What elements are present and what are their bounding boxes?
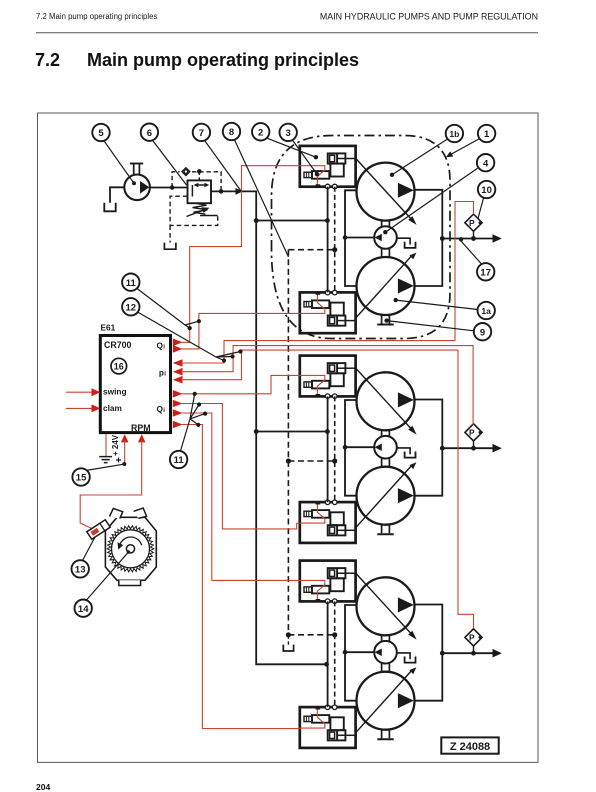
pilot control bus (dashed vertical) <box>287 250 289 635</box>
valve pilot stub (dashed) <box>198 171 200 180</box>
wire wG: to unit3 top regulator <box>181 404 301 529</box>
figure label Z 24088 box <box>441 737 498 753</box>
pressure reducing valve (6) body <box>188 180 212 203</box>
spring adjust arrow <box>187 210 204 216</box>
svg-text:204: 204 <box>36 782 50 792</box>
callout 11 <box>122 274 139 291</box>
svg-text:5: 5 <box>98 128 104 139</box>
callout leader 2 <box>266 138 316 157</box>
node: valve pilot tap <box>197 169 202 174</box>
pump unit 2 (mid pumps) <box>300 356 502 543</box>
callout 14 <box>75 600 92 617</box>
callout 10 <box>478 181 495 198</box>
node: pilot sense tap <box>219 189 224 194</box>
unit1 supply tie <box>256 220 326 222</box>
swing input wire <box>66 391 93 393</box>
svg-text:Z 24088: Z 24088 <box>450 741 490 753</box>
pilot pump flow triangle <box>140 181 149 194</box>
unit3 pilot tie (dashed) <box>288 634 334 636</box>
wire wE: pi to unit2 top regulator <box>181 350 474 628</box>
spring tail line <box>200 215 218 217</box>
engine flywheel gear <box>107 526 153 572</box>
callout 1 <box>478 125 495 142</box>
controller output arrowheads (into right edge) <box>173 339 183 429</box>
svg-text:4: 4 <box>483 158 489 169</box>
svg-text:2: 2 <box>258 128 263 139</box>
valve spring <box>193 203 208 214</box>
pilot pump (5) circle <box>124 175 150 201</box>
unit2 supply tie <box>256 431 326 433</box>
svg-text:1a: 1a <box>481 306 491 316</box>
callout 4 <box>477 154 494 171</box>
svg-text:12: 12 <box>126 303 137 314</box>
callout 9 <box>474 323 491 340</box>
valve internal path <box>191 185 193 197</box>
svg-text:CR700: CR700 <box>104 340 131 350</box>
svg-text:E61: E61 <box>101 323 116 333</box>
flow arrow on pilot line <box>236 188 244 195</box>
engine housing <box>105 517 156 580</box>
svg-text:Main pump operating principles: Main pump operating principles <box>87 50 359 70</box>
wire wD: pi to unit2 test point <box>181 346 473 425</box>
callout 6 <box>141 124 158 141</box>
dash-dot enclosure around unit 1 <box>272 136 451 339</box>
callout 8 <box>223 123 240 140</box>
clam input wire <box>66 407 93 409</box>
svg-text:7.2 Main pump operating princi: 7.2 Main pump operating principles <box>36 12 157 21</box>
valve drain tank <box>164 243 176 250</box>
RPM input wire arrow <box>138 434 146 442</box>
svg-text:16: 16 <box>114 362 124 372</box>
plus node <box>116 458 121 463</box>
svg-text:17: 17 <box>480 268 491 279</box>
callout leader 11b fork <box>181 394 206 451</box>
callout 16 <box>111 358 127 374</box>
callout 17 <box>477 263 494 280</box>
node: check valve tap <box>170 185 175 190</box>
svg-text:7: 7 <box>199 128 204 139</box>
svg-text:+ 24V: + 24V <box>111 434 120 456</box>
callout leader 12 fork <box>138 312 241 361</box>
callout leader 15 <box>86 464 124 470</box>
callout leader 1b <box>392 139 448 175</box>
pilot supply bus (vertical) <box>256 191 325 664</box>
svg-text:15: 15 <box>76 473 87 484</box>
engine lug right <box>134 508 147 518</box>
callout 1a <box>478 302 495 319</box>
callout 5 <box>92 124 109 141</box>
callout leader 13 <box>83 537 96 561</box>
svg-text:7.2: 7.2 <box>35 50 60 70</box>
wire wH: to unit3 bottom regulator <box>181 413 301 580</box>
callout 15 <box>72 468 89 485</box>
callout leader 7 <box>205 140 242 191</box>
pilot pump suction line <box>110 187 124 203</box>
svg-text:1: 1 <box>484 129 490 140</box>
callout leader 5 <box>104 141 134 184</box>
svg-text:3: 3 <box>286 128 291 139</box>
pilot bus tank <box>283 645 293 651</box>
check valve (dashed bypass) <box>172 172 221 192</box>
wire wA: Qi to unit1 top regulator <box>181 166 301 343</box>
rotation arrow <box>120 537 142 545</box>
callout 7 <box>193 124 210 141</box>
svg-text:1b: 1b <box>449 129 459 139</box>
pilot bus drain stub <box>287 635 289 645</box>
wire wI: to unit3 bottom solenoid drain <box>181 425 301 729</box>
unit2 pilot tie (dashed) <box>288 460 334 462</box>
svg-text:9: 9 <box>480 327 485 338</box>
RPM sensor wire <box>80 440 142 530</box>
callout leader 3 <box>292 140 317 175</box>
speed sensor (13) <box>87 520 110 540</box>
callout 12 <box>122 298 139 315</box>
pilot delivery line (pump to valve) <box>150 187 188 189</box>
svg-text:10: 10 <box>481 185 492 196</box>
callout leader 9 <box>387 321 474 331</box>
svg-text:MAIN HYDRAULIC PUMPS AND PUMP: MAIN HYDRAULIC PUMPS AND PUMP REGULATION <box>320 12 538 22</box>
svg-text:swing: swing <box>103 387 127 397</box>
callout 3 <box>280 124 297 141</box>
callout leader 10 <box>478 198 484 219</box>
svg-text:RPM: RPM <box>131 423 151 433</box>
svg-text:p: p <box>159 368 164 378</box>
header rule <box>36 32 538 34</box>
node: leader 5 target <box>132 181 136 185</box>
unit3 supply tie node <box>324 662 329 667</box>
svg-text:11: 11 <box>126 278 137 289</box>
valve drain lines (dashed) <box>170 196 218 225</box>
svg-text:13: 13 <box>75 565 86 576</box>
battery 24V wire <box>105 434 107 457</box>
callout leader 4 <box>385 168 477 232</box>
pilot delivery line (valve out) <box>211 190 257 192</box>
callout leader 6 <box>153 140 187 185</box>
callout 13 <box>72 560 89 577</box>
gear hub <box>126 545 134 553</box>
suction tank <box>104 203 115 212</box>
svg-text:8: 8 <box>229 127 234 138</box>
wire wF: to unit2 bottom regulator <box>181 375 301 393</box>
pilot pump shaft <box>134 164 140 174</box>
pump unit 3 (rear pumps) <box>300 561 502 748</box>
callout leader 1a <box>396 300 478 309</box>
callout leader 1 <box>449 139 480 156</box>
svg-text:11: 11 <box>174 455 185 466</box>
callout leader 14 <box>87 552 129 600</box>
svg-text:14: 14 <box>78 604 89 615</box>
wire wC: pi to unit1 test point <box>181 202 474 364</box>
figure frame <box>38 113 539 762</box>
svg-text:6: 6 <box>147 128 152 139</box>
callout leader 17 <box>461 241 482 264</box>
callout 11b <box>170 451 187 468</box>
callout 1b <box>446 125 463 142</box>
callout leader 11 fork <box>137 289 199 329</box>
callout leader 8 <box>235 140 289 257</box>
callout 2 <box>252 123 269 140</box>
engine lug left <box>110 508 123 518</box>
wire wB: Qi to unit1 bottom regulator <box>181 313 301 349</box>
controller E61 box <box>100 336 170 433</box>
ground symbol <box>99 457 112 463</box>
svg-text:clam: clam <box>103 403 122 413</box>
unit1 pilot tie (dashed) <box>288 249 334 251</box>
engine bottom tab <box>119 580 141 585</box>
pump unit 1 (front pumps) <box>300 146 502 333</box>
